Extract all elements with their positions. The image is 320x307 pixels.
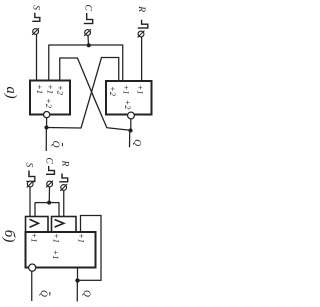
svg-text:Q: Q [38,290,48,297]
svg-text:S: S [31,5,41,10]
svg-text:+1: +1 [136,85,146,95]
svg-text:Q: Q [50,141,60,148]
svg-text:б): б) [1,230,17,243]
svg-text:+1: +1 [77,233,87,243]
svg-text:R: R [60,160,70,167]
svg-text:C: C [82,5,92,12]
svg-text:+1: +1 [51,250,61,260]
svg-text:+2: +2 [56,85,66,96]
svg-text:+2: +2 [44,98,54,109]
svg-text:+2: +2 [123,100,133,111]
svg-text:+1: +1 [30,233,40,243]
svg-text:а): а) [3,87,19,99]
svg-text:S: S [24,163,34,168]
svg-text:+1: +1 [46,84,56,94]
svg-text:+1: +1 [52,233,62,243]
svg-text:C: C [44,158,54,165]
svg-text:+1: +1 [35,84,45,94]
svg-text:+1: +1 [122,85,132,95]
svg-text:R: R [136,5,146,12]
svg-text:Q: Q [131,139,141,146]
svg-text:Q: Q [81,290,91,297]
svg-text:+2: +2 [108,86,118,97]
